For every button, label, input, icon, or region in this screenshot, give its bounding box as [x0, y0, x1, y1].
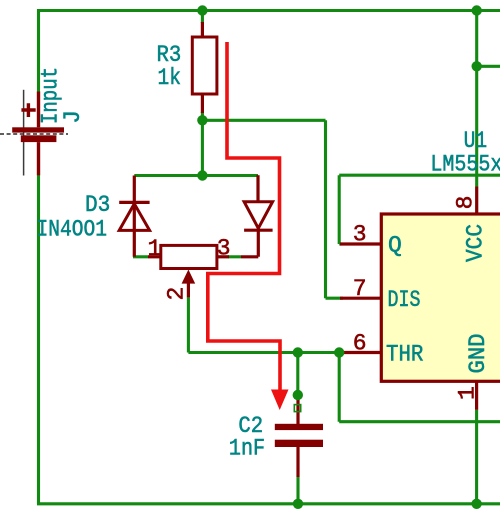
svg-text:2: 2: [164, 287, 190, 301]
diode right pin anode: [256, 175, 259, 202]
battery J top plate: [12, 127, 64, 132]
wire THR to GND vertical: [338, 353, 341, 422]
wire left rail lower: [37, 175, 40, 504]
junction THR left: [293, 347, 303, 357]
junction VCC stub: [472, 61, 482, 71]
junction C2 wire end: [293, 390, 303, 400]
potentiometer pin1 stub: [148, 255, 161, 258]
junction R3 bottom: [197, 115, 207, 125]
svg-text:GND: GND: [465, 334, 491, 374]
resistor R3 bottom pin: [201, 94, 204, 113]
red wire path: [208, 42, 280, 393]
svg-text:8: 8: [453, 196, 479, 210]
wire pin7 link: [326, 297, 344, 300]
wire pot pin3 link: [228, 255, 241, 258]
svg-text:D3: D3: [85, 192, 110, 218]
svg-text:Q: Q: [388, 233, 402, 259]
wire GND horizontal to right edge: [339, 420, 500, 423]
junction bottom C2: [293, 499, 303, 509]
svg-text:J: J: [60, 110, 86, 124]
wire C2 bottom link: [296, 477, 299, 504]
potentiometer pin3 stub: [217, 255, 229, 258]
svg-text:DIS: DIS: [388, 287, 421, 313]
wire node R3 to U1 pin7 horizontal: [202, 119, 325, 122]
wire vertical to pin7: [324, 120, 327, 298]
svg-text:1: 1: [148, 236, 162, 262]
svg-text:3: 3: [217, 236, 231, 262]
battery J bottom pin: [37, 142, 40, 175]
potentiometer wiper stem: [187, 283, 190, 297]
wire pin3 horizontal to right edge: [339, 174, 500, 177]
junction top R3: [197, 5, 207, 15]
wire C2 top link: [296, 353, 299, 396]
battery J plus sign: [21, 103, 35, 117]
junction top right: [472, 5, 482, 15]
wire VCC stub right: [477, 65, 500, 68]
diode right triangle: [244, 202, 273, 229]
red wire arrowhead: [271, 390, 289, 411]
potentiometer body: [161, 245, 217, 268]
U1 pin6 stub: [344, 351, 381, 354]
svg-text:IN4OO1: IN4OO1: [37, 217, 108, 243]
resistor R3 top pin: [201, 22, 204, 37]
junction bottom right: [471, 499, 481, 509]
potentiometer wiper arrow: [182, 270, 196, 284]
U1 pin1 stub: [475, 382, 478, 410]
wire R3 bottom to diode rail: [201, 112, 204, 176]
junction THR right: [334, 347, 344, 357]
svg-text:U1: U1: [464, 128, 488, 154]
U1 pin3 stub: [340, 242, 381, 245]
unconnected square marker: [294, 405, 300, 412]
capacitor C2 top plate: [275, 424, 323, 430]
wire top rail: [39, 9, 500, 12]
wire diode rail left: [134, 174, 202, 177]
wire pin3 link: [339, 242, 342, 245]
svg-text:THR: THR: [386, 341, 424, 367]
battery J crosshair horizontal dashed: [0, 133, 68, 135]
capacitor C2 bottom pin: [296, 447, 299, 477]
wire diode rail right: [202, 174, 258, 177]
diode D3 left cathode bar: [119, 201, 149, 204]
svg-text:7: 7: [353, 276, 367, 302]
svg-text:LM555x: LM555x: [430, 151, 500, 177]
svg-text:1: 1: [454, 386, 480, 400]
wire wiper down: [187, 297, 190, 352]
capacitor C2 bottom plate: [275, 440, 323, 447]
battery J top pin: [37, 92, 40, 128]
wire right rail: [475, 11, 478, 187]
resistor R3 body: [192, 37, 217, 94]
svg-text:6: 6: [353, 331, 367, 357]
diode right cathode bar: [244, 229, 273, 232]
capacitor C2 top pin: [296, 398, 299, 424]
wire R3 top link: [201, 11, 204, 24]
wire bottom rail: [37, 502, 500, 505]
U1 pin7 stub: [340, 297, 381, 300]
diode D3 left pin cathode: [133, 176, 136, 257]
svg-text:3: 3: [353, 222, 367, 248]
battery J bottom plate: [21, 135, 57, 142]
U1 pin8 stub: [475, 187, 478, 215]
wire pin3 vertical: [338, 175, 341, 244]
wire pin1 to bottom rail: [475, 410, 478, 504]
wire THR horizontal: [188, 351, 345, 354]
battery J crosshair vertical: [23, 90, 25, 176]
diode D3 left triangle: [119, 204, 149, 231]
junction diode rail: [197, 170, 207, 180]
svg-text:VCC: VCC: [463, 224, 489, 262]
op-amp U1 box: [381, 214, 500, 381]
svg-text:1k: 1k: [158, 65, 182, 91]
diode right lower pin: [241, 230, 258, 257]
wire left rail upper: [37, 9, 40, 92]
svg-text:1nF: 1nF: [229, 436, 265, 462]
wire pot pin1 link: [133, 255, 148, 258]
